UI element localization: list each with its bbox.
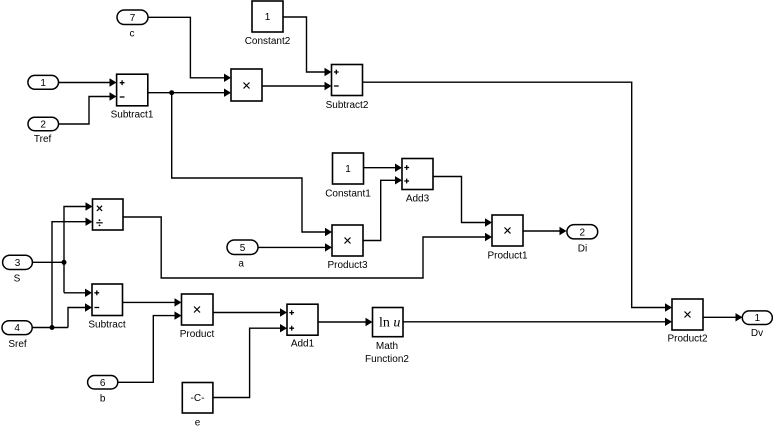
svg-text:2: 2 <box>580 227 586 238</box>
svg-text:Di: Di <box>578 243 587 254</box>
svg-text:Product2: Product2 <box>667 334 707 345</box>
svg-text:1: 1 <box>345 164 351 175</box>
svg-text:4: 4 <box>14 323 20 334</box>
svg-text:Tref: Tref <box>34 134 52 145</box>
svg-text:1: 1 <box>755 313 761 324</box>
svg-text:Sref: Sref <box>8 339 27 350</box>
svg-text:b: b <box>100 394 106 405</box>
svg-text:ln u: ln u <box>379 315 400 330</box>
svg-text:6: 6 <box>100 378 106 389</box>
svg-text:Subtract2: Subtract2 <box>326 100 369 111</box>
svg-text:7: 7 <box>130 13 136 24</box>
svg-text:3: 3 <box>15 258 21 269</box>
svg-text:Product1: Product1 <box>487 251 527 262</box>
svg-text:Subtract: Subtract <box>88 320 125 331</box>
svg-text:c: c <box>130 28 135 39</box>
svg-text:Constant2: Constant2 <box>245 36 291 47</box>
svg-text:Function2: Function2 <box>365 354 409 365</box>
svg-text:e: e <box>195 417 201 428</box>
svg-text:Add3: Add3 <box>406 194 430 205</box>
svg-text:2: 2 <box>40 120 46 131</box>
svg-text:Product3: Product3 <box>327 260 367 271</box>
svg-text:Add1: Add1 <box>291 339 315 350</box>
svg-text:-C-: -C- <box>191 393 205 404</box>
svg-text:Subtract1: Subtract1 <box>111 109 154 120</box>
svg-text:Math: Math <box>376 341 398 352</box>
svg-text:1: 1 <box>40 78 46 89</box>
svg-text:Constant1: Constant1 <box>325 188 371 199</box>
svg-text:S: S <box>14 274 21 285</box>
svg-text:a: a <box>238 259 244 270</box>
svg-text:1: 1 <box>265 12 271 23</box>
svg-text:Dv: Dv <box>751 328 763 339</box>
svg-text:5: 5 <box>240 243 246 254</box>
svg-text:Product: Product <box>180 329 215 340</box>
